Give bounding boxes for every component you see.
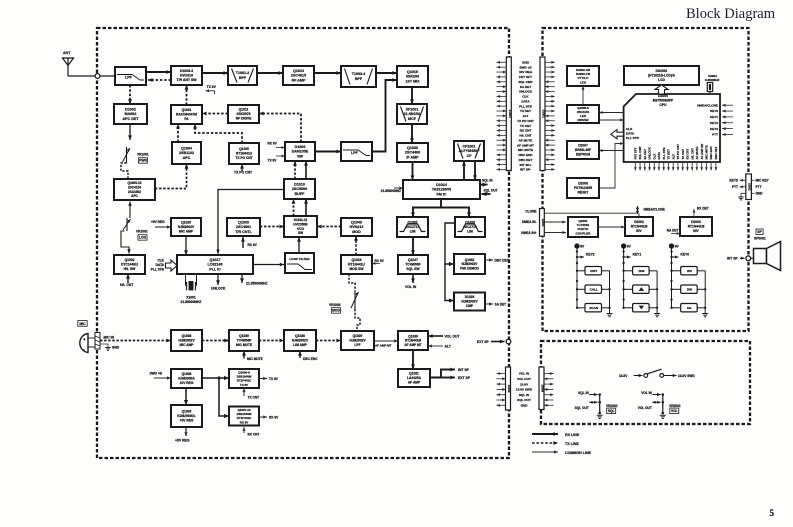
block arrow CPU to PLL bus (left) [611,130,624,139]
svg-text:PLL STB: PLL STB [662,148,666,160]
AF amp mute Q1036 [398,331,428,350]
wire MOD SW to MOD (dashed) [354,236,358,255]
bandpass filter T1003-4 [341,66,376,87]
key matrix column KEY2 (DIST/CALL/SCAN) [575,244,613,317]
connector J2004 (NMEA) [540,209,545,237]
svg-text:VR1003: VR1003 [329,303,341,307]
right board (control unit) dashed border [543,28,749,331]
5V regulator Q1003 [171,405,202,427]
low-pass filter LPF1 (antenna) [115,67,146,85]
SQL IN stub at FM IC [480,178,493,186]
wire RF AMP to BPF T1003-4 [314,71,341,75]
svg-text:ALT: ALT [445,345,452,349]
LED driver Q2005-8 [567,105,599,123]
NMEA IN- label [522,220,536,224]
svg-text:2SC4081: 2SC4081 [236,225,251,229]
mic connector on border [95,333,100,350]
svg-text:VR1001: VR1001 [137,153,149,157]
wire MOD to VCO SW (dashed) [317,225,341,229]
svg-text:J2001: J2001 [542,110,546,119]
mic mute Q1030b [229,330,259,351]
svg-text:13.8V SWD: 13.8V SWD [516,388,533,392]
svg-text:COUPLER: COUPLER [576,231,592,235]
svg-text:SA DET: SA DET [495,303,507,307]
wire PLL to loop filter [253,263,284,267]
RX 8V switch Q1007-10 [229,407,259,426]
svg-text:INT SP: INT SP [458,368,470,372]
svg-text:KEY0: KEY0 [681,253,690,257]
TX 8V label into carrier SW [268,155,286,163]
svg-text:SA DET: SA DET [520,85,531,89]
volume pot VR2001 [638,391,681,419]
svg-text:Q1017: Q1017 [210,258,221,262]
svg-text:HVN214: HVN214 [350,225,364,229]
svg-text:SA DET: SA DET [643,149,647,160]
svg-text:D2008: D2008 [578,182,588,186]
NMEA IN+ label [521,231,536,235]
svg-text:FSK DEMOD: FSK DEMOD [460,266,480,270]
svg-text:DAN235E: DAN235E [292,150,309,154]
svg-text:MIC IN: MIC IN [104,336,115,340]
svg-text:D1002: D1002 [125,107,136,111]
ALT into Q1036 [428,344,452,348]
T/R antenna switch D1003-4 [171,66,202,85]
svg-text:SP0001: SP0001 [754,236,766,240]
RX 8V stub right [259,415,279,419]
svg-text:+5V REG: +5V REG [175,439,190,443]
svg-text:TX 8V: TX 8V [207,85,217,89]
EXT SP node on border [477,339,511,344]
svg-text:SQL CMP: SQL CMP [518,80,532,84]
svg-text:HVU316: HVU316 [180,74,193,78]
svg-text:PLL STB: PLL STB [519,104,533,108]
mic amplifier Q1038 [171,330,202,351]
J2001 pin stubs [545,61,555,171]
svg-text:CF: CF [467,154,473,158]
svg-text:TX 8V: TX 8V [269,377,279,381]
svg-text:AF MUTE: AF MUTE [695,147,699,160]
svg-text:T1003-4: T1003-4 [352,72,366,76]
TX CNT under Q1006-9 [242,388,259,400]
svg-text:KEY2: KEY2 [710,121,718,125]
limiter/filter Q1025 [397,217,428,237]
svg-text:2SC2714: 2SC2714 [463,225,477,229]
svg-text:21.85000MHZ: 21.85000MHZ [181,300,202,304]
svg-text:DBC ENC: DBC ENC [303,357,318,361]
svg-text:RX LINE: RX LINE [565,433,580,437]
svg-text:VOL IN: VOL IN [405,285,417,289]
GND label right [751,192,763,196]
svg-text:21.4M15A: 21.4M15A [404,112,421,116]
svg-text:TX PO CNT: TX PO CNT [234,171,253,175]
wire LPF3 to 1st mixer (LO input) [372,78,397,151]
svg-text:Q1005: Q1005 [239,147,249,151]
wire branch to comparator D1328 [445,264,454,303]
svg-text:DBC ENC: DBC ENC [518,153,533,157]
svg-text:APC: APC [183,156,191,160]
H/L power switch Q1002 [114,255,145,274]
wire reset to CPU [599,142,624,188]
connector J2003 (bottom, option unit) [539,367,545,410]
TX 8V label at ANT SW [206,85,217,94]
svg-text:DRIVER: DRIVER [577,118,589,122]
wire ANT SW to LPF1 (TX, dashed) [148,78,171,82]
svg-text:MIC MUTE: MIC MUTE [236,343,253,347]
speaker SP0001 [754,229,781,271]
svg-text:T1001-2: T1001-2 [236,71,250,75]
svg-text:TX PO CNT: TX PO CNT [676,144,680,160]
TX 8V switch Q1006-9 [229,369,259,388]
svg-text:SW: SW [298,231,303,235]
svg-text:RF DRIVE: RF DRIVE [236,117,252,121]
svg-text:8V: 8V [580,245,585,249]
svg-text:BPF: BPF [355,77,363,81]
svg-text:PWR: PWR [139,159,147,163]
svg-text:RX CNT: RX CNT [686,149,690,160]
svg-text:TX LINE: TX LINE [565,442,579,446]
svg-text:TX PO CNT: TX PO CNT [235,156,252,160]
wire IF amp to FM IC [411,162,415,180]
svg-text:EXT SP: EXT SP [458,376,471,380]
svg-text:RESET: RESET [578,191,589,195]
svg-text:LIM: LIM [467,230,473,234]
low-pass filter LPF2 (VCO) [341,142,372,161]
svg-text:TX 8V: TX 8V [268,159,278,163]
svg-text:SWD +B: SWD +B [519,65,532,69]
node at power split [217,376,220,379]
svg-text:13.8V SWD: 13.8V SWD [678,374,695,378]
VOL OUT into Q1036 [428,334,460,338]
svg-text:LIM AMP: LIM AMP [293,343,307,347]
svg-text:SCAN: SCAN [589,306,599,310]
svg-text:+5V REG: +5V REG [180,419,194,423]
wire PA to ANT SW (TX, dashed) [185,85,189,105]
svg-text:PA: PA [184,117,189,121]
svg-text:PLL STB: PLL STB [151,268,165,272]
svg-text:AF AMP MT: AF AMP MT [375,344,392,348]
svg-text:KEYS: KEYS [729,179,738,183]
photo coupler Q2001 [568,217,598,237]
svg-text:21.85000MHZ: 21.85000MHZ [381,189,401,193]
wire split to Q1026b [441,208,471,218]
svg-text:INV: INV [636,229,642,233]
MIC IN label [104,336,115,340]
CLK DATA PLL STB labels in CPU [626,127,640,140]
svg-text:H/L SW: H/L SW [124,267,136,271]
svg-text:D1319: D1319 [294,182,305,186]
key matrix column KEY1 (16/9 up down) [621,244,660,317]
buffer D1319 [284,179,315,199]
svg-text:RX 8V: RX 8V [268,142,278,146]
21.85MHz into FM IC [381,186,403,193]
VOL IN stub under SQL SW [405,274,417,289]
svg-text:SQL IN: SQL IN [578,391,589,395]
svg-text:DBC DET: DBC DET [519,158,533,162]
svg-text:2SB1132: 2SB1132 [179,151,194,155]
svg-text:Block Diagram: Block Diagram [686,6,776,22]
svg-text:SWD +B: SWD +B [150,372,163,376]
connector J1001 (main unit) [506,57,512,171]
wire Q1036 to AF amp [411,350,415,369]
svg-text:DATA: DATA [626,132,635,136]
svg-text:VOL: VOL [671,409,678,413]
svg-text:FNT SFT: FNT SFT [633,147,637,159]
svg-text:J2004: J2004 [541,219,545,227]
10V regulator Q1008 [171,369,202,388]
crystal X1001 [181,275,202,305]
KEYS label at J2002 [729,179,745,183]
svg-text:INT SP+: INT SP+ [520,163,532,167]
MIC MUTE label under Q1030b [242,351,263,361]
svg-text:NJM2902V: NJM2902V [178,339,195,343]
svg-text:CLK: CLK [652,153,656,160]
svg-text:LOG: LOG [139,236,147,240]
svg-text:X1001: X1001 [186,296,196,300]
svg-text:SQL SW: SQL SW [406,267,420,271]
svg-text:(HT1621B-LCD)/A: (HT1621B-LCD)/A [648,74,676,78]
svg-text:CLK: CLK [157,259,164,263]
svg-text:DBC ENC: DBC ENC [709,145,713,159]
svg-text:CLK: CLK [626,127,633,131]
svg-text:GND: GND [112,346,120,350]
svg-text:CLK: CLK [522,95,529,99]
wire CPU to EEPROM [599,149,624,152]
svg-text:Q1030: Q1030 [239,334,249,338]
svg-text:FNT SFT: FNT SFT [519,75,532,79]
svg-text:J1002: J1002 [507,385,511,393]
wire ANT SW to BPF T1001-2 [202,71,228,75]
svg-text:D2003: D2003 [691,220,701,224]
svg-text:Q1003: Q1003 [182,410,192,414]
svg-text:Q1026: Q1026 [181,221,191,225]
wire NMEA- to photo coupler [544,220,566,223]
mic ground [100,344,120,350]
CPU bottom pin labels and stubs [633,143,718,170]
power amplifier Q1001 [171,105,202,124]
wire VR1002 to H/L switch [121,231,131,254]
svg-text:J2002: J2002 [748,183,752,191]
wire MOD SW to VR1003 (dashed) [349,274,355,291]
svg-text:D1306: D1306 [295,145,306,149]
svg-text:LA4425A: LA4425A [407,376,422,380]
svg-text:T/R ANT SW: T/R ANT SW [177,78,198,82]
svg-text:MCF: MCF [408,117,417,121]
J2003 pin stubs [544,372,554,407]
inverter D2003 [680,217,712,236]
svg-text:MIC: MIC [79,322,86,326]
wire Q1009-10 down to VR1002 [128,202,132,219]
AF AMP MT label and wire [374,339,398,347]
RX DET stub from D2003 [693,207,709,218]
svg-text:SQL IN: SQL IN [519,393,530,397]
TX power control Q1005 [229,143,259,164]
CLK DATA PLL STB labels at PLL [151,259,165,272]
svg-text:TX CNT: TX CNT [520,124,531,128]
svg-text:8V: 8V [627,245,632,249]
svg-text:VOL IN: VOL IN [641,391,652,395]
EEPROM D2007 [567,141,599,159]
VCO switch D1311-12 [284,216,317,237]
svg-text:J1001: J1001 [508,110,512,119]
svg-text:13.8V: 13.8V [520,382,529,386]
monolithic crystal filter XF1001 [397,104,427,124]
wire 1st mixer to XF1001 [410,87,414,104]
svg-text:KEY0: KEY0 [710,109,718,113]
svg-text:9.800MHZ: 9.800MHZ [705,78,720,82]
svg-text:+: + [83,337,86,342]
wire mic to Q1038 (dashed) [100,339,171,343]
svg-text:2SC5006: 2SC5006 [292,187,307,191]
svg-text:10V REG: 10V REG [519,70,533,74]
svg-text:MIC MUTE: MIC MUTE [705,145,709,159]
svg-text:KEY1: KEY1 [633,253,642,257]
svg-text:BR93L46F: BR93L46F [575,148,591,152]
svg-text:VR1002: VR1002 [136,230,148,234]
svg-text:NMEA/CLONE: NMEA/CLONE [644,208,665,212]
APC Q1009-10 [114,179,155,200]
svg-text:RA07M4047M: RA07M4047M [176,113,197,117]
ceramic filter CF1001 [454,141,484,161]
svg-text:LPF: LPF [125,76,133,80]
svg-text:NMEA/CLONE: NMEA/CLONE [697,103,718,107]
APC Q1004 [172,142,201,164]
svg-text:Q1004: Q1004 [181,146,192,150]
SA DET stub [485,302,506,306]
svg-text:MIC AMP: MIC AMP [180,343,195,347]
microphone symbol [80,334,96,353]
wire CPU to LED driver [599,111,624,114]
svg-text:TX PO CNT: TX PO CNT [517,119,534,123]
svg-text:H/L: H/L [687,306,692,310]
VR1002 pot [123,218,148,240]
svg-text:RX 8V: RX 8V [375,259,385,263]
svg-text:ALFYM450F: ALFYM450F [459,149,481,153]
wire LPF1 to ANT SW (RX) [146,70,171,74]
svg-text:Q1027: Q1027 [408,258,418,262]
svg-text:BUFF: BUFF [295,192,305,196]
svg-text:H/L CNT: H/L CNT [519,134,531,138]
svg-text:KEY3: KEY3 [710,127,718,131]
svg-text:Q1030: Q1030 [407,146,418,150]
svg-text:1ST MIX: 1ST MIX [405,79,420,83]
svg-text:DATA: DATA [521,100,530,104]
svg-text:RX CNT: RX CNT [520,129,532,133]
svg-text:NJM2902V: NJM2902V [349,339,366,343]
svg-text:MIC MUTE: MIC MUTE [518,148,533,152]
svg-text:AF AMP MT: AF AMP MT [404,343,421,347]
wire photo coupler to inverter D2002 [598,225,625,228]
svg-text:D1003-4: D1003-4 [180,69,193,73]
ground at J2002 [738,193,746,200]
DBC DET stub [485,258,509,262]
svg-text:MOD: MOD [352,230,361,234]
CPU D2004 M37590E8FP [624,94,720,162]
svg-text:LOOP FILTER: LOOP FILTER [289,257,310,261]
wire Q1026 mic amp to PLL [184,236,188,255]
svg-text:INV: INV [693,229,699,233]
PLL IC Q1017 [177,255,253,274]
svg-text:DTC144EU: DTC144EU [121,263,139,267]
wire Q1038 to mic mute (dashed) [202,339,229,343]
svg-text:EEPROM: EEPROM [576,153,590,157]
svg-text:SW: SW [297,154,303,158]
H/L CNT label under Q1002 [120,274,134,287]
svg-text:Q1026: Q1026 [465,221,475,225]
svg-text:LPF: LPF [351,151,359,155]
left board dashed border [97,28,509,458]
svg-text:PLL IC: PLL IC [209,267,221,271]
svg-text:AF AMP: AF AMP [408,381,421,385]
svg-text:MA862: MA862 [125,112,137,116]
VR1003 mod pot [329,291,360,313]
svg-text:INT SP: INT SP [727,257,738,261]
wire antenna to LPF [68,75,115,77]
squelch switch Q1027 [398,255,428,274]
svg-text:RX DET: RX DET [697,207,709,211]
SQL OUT stub at FM IC [482,188,498,196]
svg-text:CF1001: CF1001 [463,144,476,148]
svg-text:RT1N441M: RT1N441M [631,225,648,229]
J1001 pin stubs [497,61,507,171]
wire node to RX 8V block [219,378,229,418]
svg-text:NJM2902V: NJM2902V [461,300,478,304]
wire LPF1 to APC DET (dashed) [128,85,132,104]
page number 5 [770,508,775,518]
connector J2001 (control unit) [540,57,546,171]
svg-text:TX DET: TX DET [667,149,671,160]
svg-text:LED: LED [580,80,587,84]
PTT label at J2002 [732,185,746,189]
wire carrier SW to LPF3 [315,150,341,154]
wire FM IC to CF1001 [462,161,466,180]
comparator D1328 [454,293,485,311]
svg-text:LPF: LPF [354,343,360,347]
svg-text:RX 8V: RX 8V [269,416,279,420]
svg-text:H/L CNT: H/L CNT [690,148,694,160]
svg-text:Q1016: Q1016 [407,70,418,74]
svg-text:Q1028: Q1028 [295,334,305,338]
svg-text:BPF: BPF [239,76,247,80]
svg-text:T/R CNTL: T/R CNTL [235,230,252,234]
svg-text:D1328: D1328 [465,295,475,299]
svg-text:VOL IN: VOL IN [519,372,530,376]
svg-text:UNLOCK: UNLOCK [519,90,533,94]
SWD +B into Q1008 [150,372,172,380]
svg-text:PTT: PTT [712,133,718,137]
SA DET into inverter D2003 [667,229,680,235]
loop filter [285,253,314,273]
svg-text:Q1002: Q1002 [124,258,134,262]
ANT label [63,51,71,55]
svg-text:ANT: ANT [63,51,71,55]
+9V REG label into Q1026 [151,220,171,229]
wire CF1001 to FM IC [473,161,477,180]
svg-text:XF1001: XF1001 [406,107,419,111]
svg-text:TX DET: TX DET [520,109,531,113]
svg-text:SQL OUT: SQL OUT [517,398,531,402]
UNLOCK stub [211,275,226,291]
svg-text:NMEA IN+: NMEA IN+ [521,231,536,235]
+5V REG stub under Q1003 [175,427,190,443]
wire buffer D1319 to carrier SW (dashed) [293,161,297,179]
CPU right pins KEY/PTT [697,103,733,136]
svg-text:UNLOCK: UNLOCK [211,287,226,291]
21.85MHz output stub [240,275,267,286]
svg-text:DATA: DATA [657,151,661,160]
svg-text:H/L CNT: H/L CNT [120,283,134,287]
carrier switch D1306 [285,142,315,161]
13.8V SWD label [678,374,695,378]
